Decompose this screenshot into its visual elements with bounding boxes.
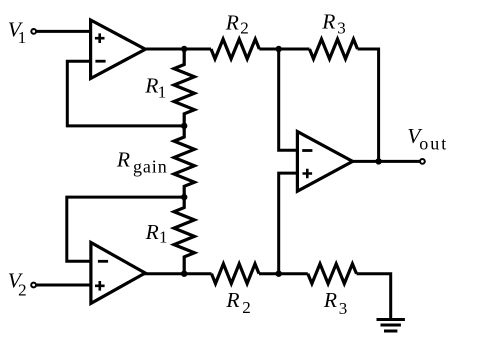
wire R3 top right end down to output node — [358, 49, 379, 161]
svg-text:3: 3 — [339, 299, 348, 318]
terminal V1 (open circle) — [31, 29, 36, 34]
wire node F up to U3 non-inverting input — [279, 173, 298, 274]
svg-text:R: R — [144, 74, 158, 98]
node F: bottom rail R2/R3 junction dot — [276, 271, 282, 277]
wire U1 inverting input feedback: left, down, right to node A — [67, 61, 184, 126]
op-amp U1 minus sign (inverting input) — [95, 60, 105, 63]
svg-text:2: 2 — [18, 281, 27, 300]
wire U2 output to node E — [144, 272, 212, 275]
op-amp U1 plus sign (non-inverting input) — [95, 33, 105, 43]
wire bottom rail between R2 and R3 — [259, 272, 308, 275]
node G: output junction dot — [375, 158, 381, 164]
svg-text:1: 1 — [18, 28, 27, 47]
wire V2 input to op-amp U2 non-inverting input — [34, 284, 92, 287]
svg-text:2: 2 — [240, 19, 249, 38]
op-amp U3 — [297, 132, 352, 192]
svg-text:3: 3 — [337, 19, 346, 38]
svg-text:R: R — [145, 220, 159, 244]
wire node C down to U3 inverting input — [279, 49, 298, 150]
node A: R1/Rgain junction dot — [181, 123, 187, 129]
node E: bottom rail R1 junction dot — [181, 271, 187, 277]
wire V1 input to op-amp U1 non-inverting input — [34, 30, 92, 33]
terminal Vout (open circle) — [420, 159, 425, 164]
wire U2 inverting input feedback: left, up, right to node D — [67, 197, 184, 261]
resistor R1 (bottom, vertical) — [174, 197, 194, 274]
svg-text:1: 1 — [159, 227, 168, 246]
svg-text:R: R — [225, 288, 239, 312]
svg-text:2: 2 — [242, 298, 251, 317]
node B: top rail R1 junction dot — [181, 46, 187, 52]
op-amp U1 — [91, 20, 146, 79]
node C: top rail R2/R3 junction dot — [276, 46, 282, 52]
svg-text:R: R — [116, 148, 130, 172]
wire U1 output to node B — [144, 48, 211, 51]
node D: Rgain/R1 junction dot — [181, 194, 187, 200]
op-amp U2 minus sign (inverting input) — [98, 260, 108, 263]
op-amp U3 minus sign (inverting input) — [302, 149, 312, 152]
wire top rail between R2 and R3 — [259, 48, 309, 51]
svg-text:gain: gain — [133, 156, 168, 176]
resistor R3 (bottom) — [308, 264, 357, 284]
ground symbol — [377, 320, 405, 332]
svg-text:R: R — [321, 10, 335, 34]
op-amp U2 plus sign (non-inverting input) — [95, 281, 105, 291]
svg-text:1: 1 — [158, 83, 167, 102]
op-amp U3 plus sign (non-inverting input) — [303, 169, 313, 179]
resistor R3 (top) — [310, 39, 358, 59]
resistor R2 (top) — [211, 39, 259, 59]
resistor R2 (bottom) — [212, 264, 260, 284]
resistor R1 (top, vertical) — [174, 49, 194, 126]
wire R3 bottom right end to ground — [357, 274, 391, 318]
terminal V2 (open circle) — [31, 283, 36, 288]
svg-text:out: out — [419, 134, 448, 154]
svg-text:R: R — [225, 10, 239, 34]
svg-text:R: R — [323, 288, 337, 312]
wire U3 output to Vout terminal — [352, 160, 422, 163]
op-amp U2 — [91, 243, 145, 304]
resistor Rgain (vertical) — [174, 126, 194, 197]
